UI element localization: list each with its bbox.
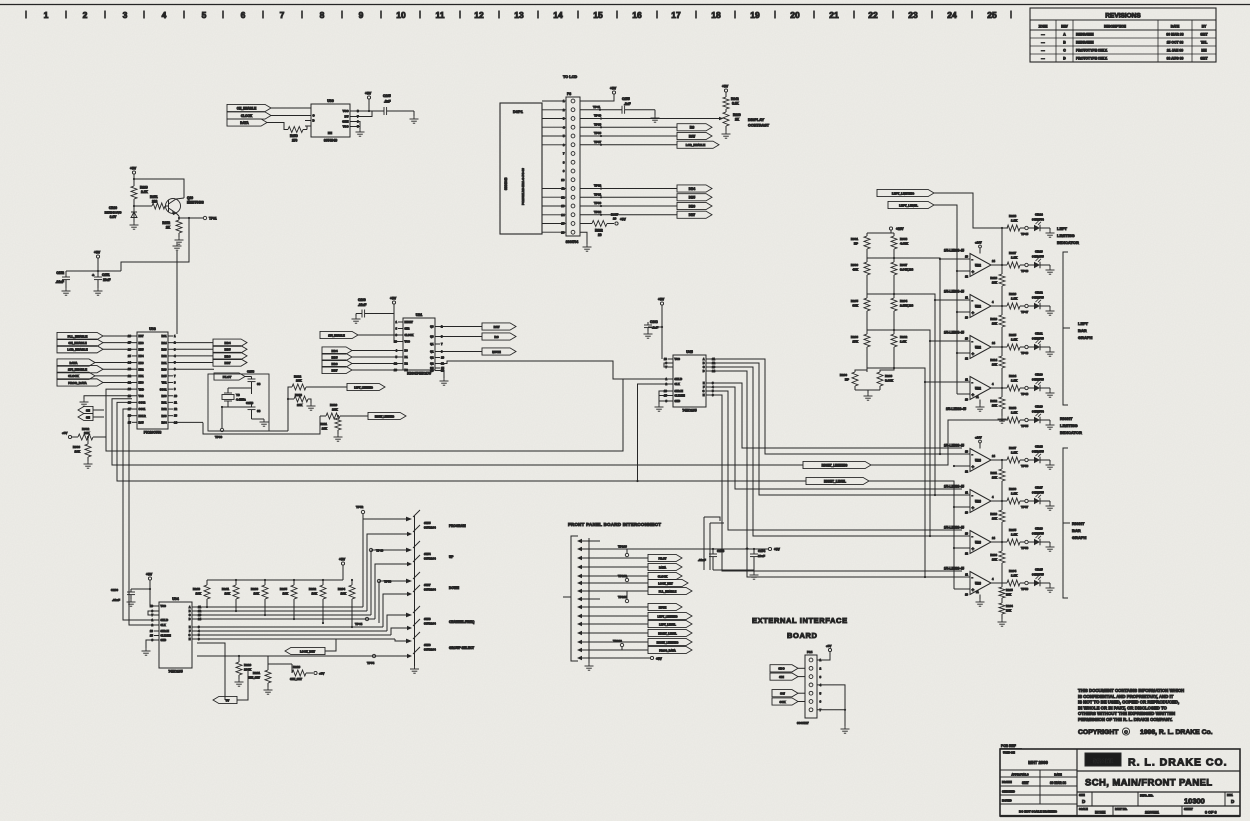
svg-text:SM: SM — [86, 408, 90, 412]
svg-text:DB5: DB5 — [331, 355, 337, 359]
svg-text:P14: P14 — [807, 650, 813, 654]
svg-text:.1uF: .1uF — [624, 102, 631, 106]
svg-text:GRN: GRN — [342, 120, 348, 124]
flag OE_ENABLE — [227, 104, 271, 111]
flag LCD_ENABLE — [57, 346, 103, 353]
svg-text:TP31: TP31 — [594, 192, 602, 196]
interconnect arrow — [577, 656, 582, 660]
svg-text:15: 15 — [593, 10, 603, 20]
svg-text:TKL: TKL — [1201, 41, 1208, 45]
svg-text:IS CONFIDENTIAL AND PROPRIETAR: IS CONFIDENTIAL AND PROPRIETARY, AND IT — [1078, 694, 1174, 699]
flag DB4 right of U63 — [213, 339, 247, 346]
flag RIGHT_LEVEL interconnect — [648, 629, 692, 636]
ground below U45 — [655, 404, 664, 411]
svg-text:BAR: BAR — [1072, 528, 1081, 533]
resistor R312 10K — [1001, 388, 1003, 397]
svg-text:R306: R306 — [851, 263, 859, 267]
svg-text:CR27: CR27 — [1035, 486, 1043, 490]
svg-text:10: 10 — [150, 629, 154, 633]
svg-text:P3: P3 — [567, 92, 571, 96]
op-amp output wire — [991, 305, 1007, 307]
svg-text:CR20: CR20 — [1035, 373, 1043, 377]
test point TP52 — [361, 510, 364, 513]
ground at P14 — [841, 726, 850, 733]
svg-text:TP48: TP48 — [1021, 392, 1029, 396]
interconnect arrow — [577, 614, 582, 618]
wire U64 output row — [197, 618, 375, 620]
wire U63 to DB6 — [173, 355, 213, 357]
svg-text:GRAPH: GRAPH — [1072, 535, 1087, 540]
wire CLOCK to U60 — [271, 115, 311, 117]
svg-text:TP39: TP39 — [594, 131, 602, 135]
svg-text:EN: EN — [328, 131, 332, 135]
wire long under box — [203, 416, 320, 434]
svg-text:C: C — [313, 114, 315, 118]
wire ladder tap to op-amp — [894, 294, 960, 300]
LED CR24 3472754 — [1034, 225, 1040, 231]
svg-text:33K: 33K — [852, 304, 858, 308]
svg-text:+5V: +5V — [656, 657, 663, 661]
svg-text:11: 11 — [174, 400, 177, 404]
resistor R262 1.3K — [891, 334, 897, 347]
svg-text:SER-IN: SER-IN — [161, 630, 170, 633]
wire LEFT_LEVEL stub — [957, 352, 960, 354]
resistor R232 10K — [322, 580, 324, 585]
svg-text:A: A — [189, 606, 191, 609]
revisions table — [1030, 8, 1216, 62]
resistor R316 10K — [1001, 306, 1003, 315]
svg-text:R316: R316 — [990, 317, 997, 321]
svg-text:C105: C105 — [383, 94, 391, 98]
svg-text:+10V: +10V — [975, 436, 982, 440]
wire op-amp chain vertical — [1001, 228, 1003, 265]
svg-text:10K: 10K — [1006, 609, 1011, 613]
interconnect arrow — [577, 565, 582, 569]
svg-text:INDICATOR: INDICATOR — [1057, 240, 1079, 245]
svg-text:SH/LD: SH/LD — [161, 619, 169, 622]
svg-text:TP53: TP53 — [384, 580, 392, 584]
svg-text:CR29: CR29 — [1035, 405, 1043, 409]
resistor R231 — [267, 664, 269, 670]
svg-text:21 JAN 99: 21 JAN 99 — [1167, 49, 1183, 53]
svg-text:R209: R209 — [990, 553, 997, 557]
svg-text:+5V: +5V — [722, 85, 729, 89]
test point TP59 — [1025, 581, 1028, 584]
resistor R240 10K — [206, 580, 208, 585]
wire U64 H to flag — [197, 643, 239, 656]
interconnect arrow — [577, 581, 582, 585]
svg-text:C: C — [189, 614, 191, 617]
svg-text:20: 20 — [613, 217, 617, 221]
svg-text:10: 10 — [174, 394, 178, 398]
wire collector rail — [134, 179, 184, 198]
test point TP46 — [1025, 263, 1028, 266]
svg-text:RC2: RC2 — [161, 408, 167, 411]
resistor R251 220 — [152, 203, 165, 209]
wire to flag PLL_ENABLE — [589, 590, 648, 592]
svg-text:VCC: VCC — [675, 358, 680, 361]
svg-text:2.2K: 2.2K — [141, 190, 148, 194]
svg-text:19: 19 — [750, 10, 760, 20]
bracket LEFT BAR GRAPH — [1063, 252, 1068, 405]
small flag SM bottom — [213, 696, 237, 703]
svg-text:CR24: CR24 — [1035, 213, 1043, 217]
pot wiper arrow — [719, 117, 724, 121]
svg-text:PLL_ENABLE: PLL_ENABLE — [659, 589, 677, 593]
svg-text:D: D — [703, 370, 705, 373]
flag DB7 right of U63 — [213, 359, 247, 366]
wire vertical feed near C153 — [704, 517, 720, 521]
wire SH/LD jog W1 — [648, 378, 668, 380]
svg-text:PC1602LRS-HSA-G-PS-06: PC1602LRS-HSA-G-PS-06 — [521, 168, 525, 205]
svg-text:7: 7 — [280, 10, 285, 20]
svg-text:10K: 10K — [340, 592, 346, 596]
flag DB5 — [677, 194, 712, 201]
svg-text:RIGHT: RIGHT — [1060, 416, 1073, 421]
power +5V right of caps — [768, 547, 771, 550]
power +10V ladder — [889, 227, 892, 230]
svg-text:43K: 43K — [852, 268, 858, 272]
svg-text:1.8K: 1.8K — [1011, 533, 1018, 537]
svg-text:B: B — [703, 362, 705, 365]
op-amp U22 — [960, 299, 970, 301]
svg-text:DRAWN: DRAWN — [1002, 780, 1012, 784]
svg-text:1.8K: 1.8K — [1011, 451, 1018, 455]
title block left column — [1076, 749, 1078, 816]
wire P3 pin16 to ground — [580, 232, 587, 244]
svg-text:8.66K: 8.66K — [885, 379, 894, 383]
svg-text:CR21: CR21 — [1035, 332, 1043, 336]
svg-text:23: 23 — [908, 10, 918, 20]
resistor R318 10K — [1001, 265, 1003, 274]
svg-text:R308: R308 — [900, 237, 908, 241]
svg-text:16: 16 — [632, 10, 642, 20]
svg-text:TO LCD: TO LCD — [563, 75, 577, 79]
svg-text:DISPLAY: DISPLAY — [748, 118, 765, 122]
svg-text:B: B — [189, 610, 191, 613]
svg-text:20: 20 — [790, 10, 800, 20]
test point TP43 — [369, 548, 372, 551]
wire P3 pin12 — [580, 196, 677, 198]
wire to flag MUTE — [589, 606, 648, 608]
interconnect arrow — [577, 640, 582, 644]
svg-text:CR26: CR26 — [1035, 527, 1043, 531]
svg-text:MHT 2000: MHT 2000 — [1028, 760, 1048, 765]
wire up to R322 — [288, 387, 292, 431]
svg-text:R235: R235 — [1009, 528, 1017, 532]
flag SCK — [772, 698, 798, 705]
resistor R225 1.8K — [1007, 344, 1020, 350]
svg-text:10K: 10K — [992, 517, 997, 521]
svg-text:RB4: RB4 — [139, 355, 145, 358]
svg-text:G: G — [189, 634, 191, 637]
svg-text:R318: R318 — [990, 276, 997, 280]
svg-text:21: 21 — [829, 10, 839, 20]
wire bus W3 to RIGHT_LIMITING — [112, 399, 803, 465]
svg-text:SH/LD: SH/LD — [675, 378, 683, 381]
svg-text:GRAPH: GRAPH — [1078, 335, 1093, 340]
svg-text:RA5: RA5 — [161, 375, 167, 378]
svg-text:25: 25 — [987, 10, 997, 20]
svg-text:PROG_DATA: PROG_DATA — [659, 648, 676, 652]
svg-text:DSP1: DSP1 — [513, 110, 523, 114]
svg-text:R265: R265 — [851, 299, 859, 303]
op-amp U22 — [960, 340, 970, 342]
interconnect arrow — [577, 547, 582, 551]
wire U63 to DB4 — [173, 342, 213, 344]
capacitor C159 68 — [228, 406, 252, 408]
svg-text:SMT: SMT — [1022, 781, 1029, 785]
svg-text:ISSUED: ISSUED — [1002, 799, 1012, 803]
svg-text:3472754: 3472754 — [1032, 410, 1044, 414]
svg-text:10K: 10K — [992, 363, 997, 367]
op IC U60 — [311, 104, 350, 137]
resistor R226 1.8K — [1007, 303, 1020, 309]
wire cap rail — [66, 270, 121, 272]
flag DB7 into U21 — [322, 366, 352, 373]
capacitor C153 .01uF — [712, 549, 714, 554]
wire LEFT_LEVEL stub — [957, 270, 960, 272]
svg-text:10K: 10K — [992, 476, 997, 480]
svg-text:3679204: 3679204 — [424, 648, 436, 652]
wire U64 GND — [146, 640, 154, 648]
svg-text:U60: U60 — [327, 99, 334, 103]
svg-text:SW5: SW5 — [424, 521, 431, 525]
title block frame — [1000, 749, 1240, 816]
svg-text:MUTE: MUTE — [659, 605, 667, 609]
svg-text:22: 22 — [868, 10, 878, 20]
flag PLL_ENABLE interconnect — [648, 587, 692, 594]
test point TP90 — [221, 407, 223, 428]
svg-text:13: 13 — [174, 414, 178, 418]
svg-text:10uF: 10uF — [103, 278, 110, 282]
wire PILOT to C158 — [245, 376, 252, 378]
flag LEFT_LEVEL top right — [888, 201, 934, 208]
svg-text:R228: R228 — [1009, 214, 1017, 218]
interconnect arrow — [577, 622, 582, 626]
op-amp U22 — [960, 381, 970, 383]
svg-text:SCK: SCK — [779, 700, 786, 704]
ruler scale numbers — [44, 10, 997, 20]
svg-text:+: + — [972, 310, 975, 315]
svg-text:DESCRIPTION: DESCRIPTION — [1104, 25, 1126, 29]
svg-text:30 MAR 98: 30 MAR 98 — [1166, 33, 1183, 37]
svg-text:CLOCK: CLOCK — [658, 574, 668, 578]
svg-text:TP54: TP54 — [367, 661, 375, 665]
ground below R303 — [84, 461, 93, 468]
svg-text:12: 12 — [474, 10, 484, 20]
svg-text:+: + — [972, 392, 975, 397]
resistor R265 33K — [864, 298, 870, 311]
svg-text:TP203: TP203 — [618, 545, 627, 549]
svg-text:R234: R234 — [1009, 569, 1017, 573]
svg-text:R307: R307 — [900, 263, 908, 267]
power +5V transistor circuit — [132, 171, 135, 174]
wire P3 pin4 to RS flag — [580, 126, 677, 128]
wire U45 output lower — [711, 391, 962, 530]
svg-text:R224: R224 — [1009, 374, 1017, 378]
svg-text:3 OF 3: 3 OF 3 — [1205, 811, 1217, 815]
svg-text:U21: U21 — [416, 313, 423, 317]
svg-text:PILOT: PILOT — [659, 556, 667, 560]
svg-text:3.9V: 3.9V — [110, 215, 117, 219]
ground after CR26 — [1049, 542, 1051, 544]
svg-text:SH2: SH2 — [405, 328, 410, 331]
test point TP203 — [625, 553, 628, 556]
wire to flag PROG_DATA — [589, 649, 648, 651]
resistor R210 10K — [1001, 501, 1003, 510]
flag R/W — [677, 132, 712, 139]
flag DATA interconnect — [648, 563, 682, 570]
ground U63 VSS — [84, 396, 132, 399]
svg-text:3.3K: 3.3K — [732, 102, 739, 106]
test point TP201 — [625, 599, 628, 602]
switch SW5 3679204 PROGRAM — [363, 519, 407, 607]
svg-text:VSC: VSC — [343, 125, 349, 129]
svg-text:LEFT_LIMITING: LEFT_LIMITING — [892, 191, 915, 195]
svg-text:EXTERNAL INTERFACE: EXTERNAL INTERFACE — [752, 616, 848, 625]
resistor R238 1.8K — [1007, 417, 1020, 423]
svg-text:TP32: TP32 — [594, 184, 602, 188]
svg-text:IS NOT TO BE USED, COPIED OR R: IS NOT TO BE USED, COPIED OR REPRODUCED, — [1078, 700, 1179, 705]
wire DATA to U60 — [267, 123, 288, 130]
svg-text:CLOCK: CLOCK — [241, 114, 253, 118]
ground after CR24 — [1049, 228, 1051, 230]
switch SW4 3679204 UP — [371, 550, 407, 615]
wire P3 pin11 — [580, 188, 677, 190]
svg-text:3: 3 — [123, 10, 128, 20]
ic U21 74HC175 — [403, 318, 435, 370]
wire +5V to U21 VCC — [394, 318, 398, 342]
ground after CR22 — [1049, 306, 1051, 308]
svg-text:14: 14 — [553, 10, 563, 20]
flag RIGHT_LIMITING right — [803, 461, 871, 468]
svg-text:SM: SM — [86, 415, 90, 419]
svg-text:11: 11 — [436, 10, 445, 20]
svg-text:3472755: 3472755 — [1032, 532, 1044, 536]
svg-text:C308: C308 — [650, 320, 658, 324]
title size cell — [1091, 792, 1093, 806]
svg-text:+5V: +5V — [390, 297, 397, 301]
svg-text:PROGRAM: PROGRAM — [449, 524, 466, 528]
svg-text:U22: U22 — [975, 305, 981, 309]
LED CR27 3472755 — [1034, 498, 1040, 504]
flag SS/ — [772, 690, 798, 697]
svg-text:RESET: RESET — [405, 321, 414, 324]
svg-text:C154: C154 — [758, 549, 766, 553]
flag LEFT_LIMITING interconnect — [648, 612, 692, 619]
svg-text:DB4: DB4 — [689, 187, 696, 191]
svg-text:LEFT_LIMITING: LEFT_LIMITING — [657, 614, 677, 618]
LED CR21 3472755 — [1034, 344, 1040, 350]
wire to flag LEFT_LIMITING — [589, 615, 648, 617]
wires DSP1 to P3 — [542, 101, 566, 232]
svg-text:12: 12 — [174, 407, 178, 411]
svg-text:TP37: TP37 — [594, 140, 602, 144]
svg-text:PROTOTYPE ONLY.: PROTOTYPE ONLY. — [1076, 57, 1108, 61]
svg-text:H: H — [703, 394, 705, 397]
resistor R233 10K — [264, 580, 266, 585]
wire U63 to DB5 — [173, 348, 213, 350]
svg-text:RS: RS — [494, 335, 498, 339]
resistor row top rail — [207, 579, 343, 581]
small flag SM2 — [78, 413, 93, 420]
svg-text:KS34/74HC175: KS34/74HC175 — [407, 372, 431, 376]
svg-text:R263: R263 — [851, 335, 859, 339]
svg-text:R233: R233 — [251, 587, 259, 591]
svg-text:R225: R225 — [1009, 333, 1017, 337]
svg-text:TP45: TP45 — [1021, 232, 1029, 236]
svg-text:H: H — [189, 638, 191, 641]
svg-text:U22: U22 — [975, 264, 981, 268]
ladder top rail — [867, 232, 894, 234]
svg-text:C152: C152 — [56, 271, 64, 275]
test point TP202 — [625, 578, 628, 581]
svg-text:TP41: TP41 — [593, 105, 601, 109]
svg-text:270: 270 — [292, 139, 298, 143]
test point TP91 — [203, 216, 206, 219]
svg-text:NONE: NONE — [1095, 811, 1106, 815]
svg-text:27K: 27K — [852, 340, 858, 344]
svg-text:DB7: DB7 — [224, 361, 230, 365]
ground below R252 — [175, 237, 184, 244]
svg-text:C158: C158 — [247, 370, 255, 374]
flag DATA — [227, 119, 267, 126]
flag LCD_ENABLE — [677, 141, 719, 148]
svg-text:3006727: 3006727 — [797, 721, 809, 725]
ic U64 74HC165 — [159, 602, 192, 668]
svg-text:R301: R301 — [851, 237, 859, 241]
wire P14 pin4 pin7 to ground — [817, 685, 845, 726]
svg-text:3472755: 3472755 — [1032, 296, 1044, 300]
svg-text:BOARD: BOARD — [787, 631, 818, 640]
svg-text:25: 25 — [128, 354, 132, 358]
svg-text:.01uF: .01uF — [358, 303, 366, 307]
svg-text:DB6: DB6 — [331, 362, 337, 366]
op-amp output wire — [991, 346, 1007, 348]
svg-text:TP57: TP57 — [1021, 505, 1029, 509]
svg-text:1998, R. L. DRAKE Co.: 1998, R. L. DRAKE Co. — [1140, 729, 1213, 736]
flag DB6 into U21 — [322, 360, 352, 367]
svg-text:+5V: +5V — [610, 87, 617, 91]
svg-text:PCB REF: PCB REF — [1001, 744, 1016, 748]
test point TP49 — [1025, 345, 1028, 348]
svg-text:PROG_DATA: PROG_DATA — [68, 381, 87, 385]
resistor R321 20K — [337, 415, 339, 417]
svg-text:REV.: REV. — [1227, 793, 1233, 797]
svg-text:68: 68 — [257, 382, 261, 386]
resistor R322 10K — [292, 384, 306, 390]
svg-text:MH: MH — [1201, 49, 1207, 53]
ground after CR28 — [1049, 460, 1051, 462]
svg-text:R231: R231 — [253, 671, 261, 675]
svg-text:+5V: +5V — [319, 672, 324, 676]
capacitor C154 10uF — [753, 549, 755, 554]
op-amp output wire — [991, 541, 1007, 543]
svg-text:+: + — [972, 546, 975, 551]
svg-text:SW3: SW3 — [424, 617, 431, 621]
svg-text:10: 10 — [441, 356, 445, 360]
module DSP1 — [500, 103, 542, 234]
capacitor C152 .01uF — [62, 277, 70, 280]
svg-text:TP29: TP29 — [594, 210, 602, 214]
wire U64 output row — [197, 626, 383, 628]
svg-text:+: + — [746, 547, 748, 551]
svg-text:.01uF: .01uF — [112, 598, 120, 602]
switch common line — [414, 516, 416, 666]
flag DB4 — [677, 185, 712, 192]
LED CR25 3472755 — [1034, 580, 1040, 586]
